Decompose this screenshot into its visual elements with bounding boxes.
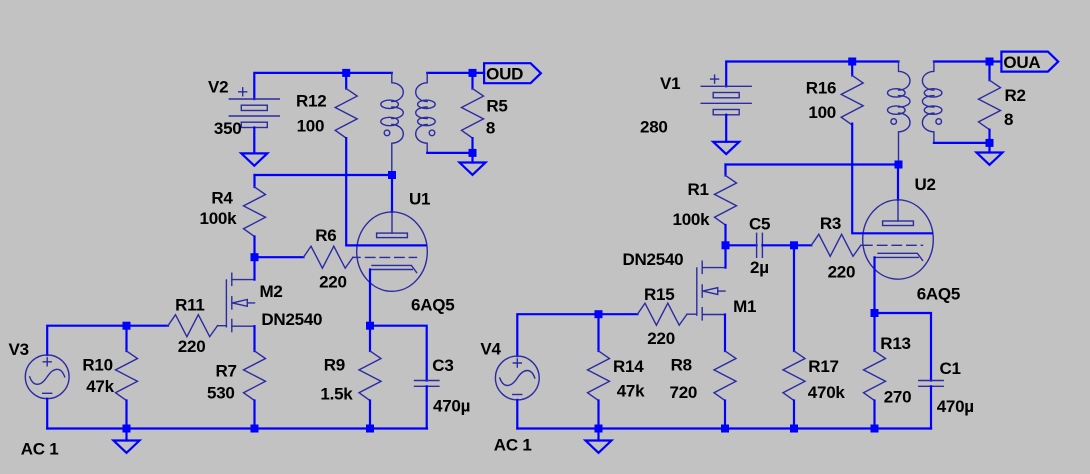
svg-text:R9: R9: [324, 355, 345, 374]
svg-text:6AQ5: 6AQ5: [411, 296, 454, 315]
svg-text:R5: R5: [486, 96, 507, 115]
svg-text:270: 270: [884, 388, 912, 407]
svg-text:AC 1: AC 1: [494, 436, 532, 455]
svg-text:R10: R10: [82, 355, 112, 374]
svg-text:U2: U2: [915, 175, 936, 194]
svg-text:47k: 47k: [617, 381, 645, 400]
svg-text:47k: 47k: [86, 377, 114, 396]
svg-text:530: 530: [207, 383, 235, 402]
svg-text:2µ: 2µ: [750, 258, 769, 277]
svg-text:OUA: OUA: [1003, 53, 1040, 72]
svg-text:470µ: 470µ: [937, 397, 974, 416]
svg-text:R3: R3: [820, 214, 841, 233]
svg-text:720: 720: [670, 383, 698, 402]
svg-text:R17: R17: [808, 357, 838, 376]
svg-text:6AQ5: 6AQ5: [917, 285, 960, 304]
svg-text:100k: 100k: [200, 209, 238, 228]
svg-text:C3: C3: [432, 356, 453, 375]
svg-text:R7: R7: [216, 362, 237, 381]
svg-text:100: 100: [808, 103, 836, 122]
svg-text:R2: R2: [1005, 86, 1026, 105]
svg-text:R11: R11: [175, 295, 205, 314]
svg-text:1.5k: 1.5k: [320, 384, 353, 403]
svg-text:DN2540: DN2540: [261, 310, 322, 329]
svg-text:8: 8: [1004, 110, 1013, 129]
svg-text:100k: 100k: [673, 210, 711, 229]
svg-text:350: 350: [214, 119, 242, 138]
svg-text:V2: V2: [208, 77, 228, 96]
svg-text:M2: M2: [260, 282, 283, 301]
svg-text:U1: U1: [409, 189, 430, 208]
svg-text:V1: V1: [660, 74, 680, 93]
svg-text:220: 220: [319, 273, 347, 292]
svg-text:470µ: 470µ: [433, 397, 470, 416]
svg-text:R8: R8: [671, 355, 692, 374]
svg-text:AC 1: AC 1: [21, 439, 59, 458]
svg-text:R13: R13: [880, 334, 910, 353]
svg-text:100: 100: [297, 116, 325, 135]
svg-text:R14: R14: [613, 357, 644, 376]
svg-text:R15: R15: [644, 285, 674, 304]
svg-text:8: 8: [486, 118, 495, 137]
svg-text:R6: R6: [315, 226, 336, 245]
svg-text:R12: R12: [296, 92, 326, 111]
svg-text:OUD: OUD: [486, 65, 523, 84]
svg-text:V4: V4: [480, 340, 501, 359]
svg-text:220: 220: [178, 337, 206, 356]
svg-text:DN2540: DN2540: [623, 250, 684, 269]
svg-text:220: 220: [828, 263, 856, 282]
svg-text:R4: R4: [211, 189, 233, 208]
svg-text:470k: 470k: [808, 383, 846, 402]
svg-text:280: 280: [640, 118, 668, 137]
svg-text:C1: C1: [940, 359, 961, 378]
svg-text:R16: R16: [806, 79, 836, 98]
svg-text:C5: C5: [749, 215, 770, 234]
svg-text:R1: R1: [688, 180, 709, 199]
svg-text:220: 220: [647, 329, 675, 348]
svg-text:V3: V3: [9, 340, 29, 359]
svg-text:M1: M1: [733, 297, 756, 316]
